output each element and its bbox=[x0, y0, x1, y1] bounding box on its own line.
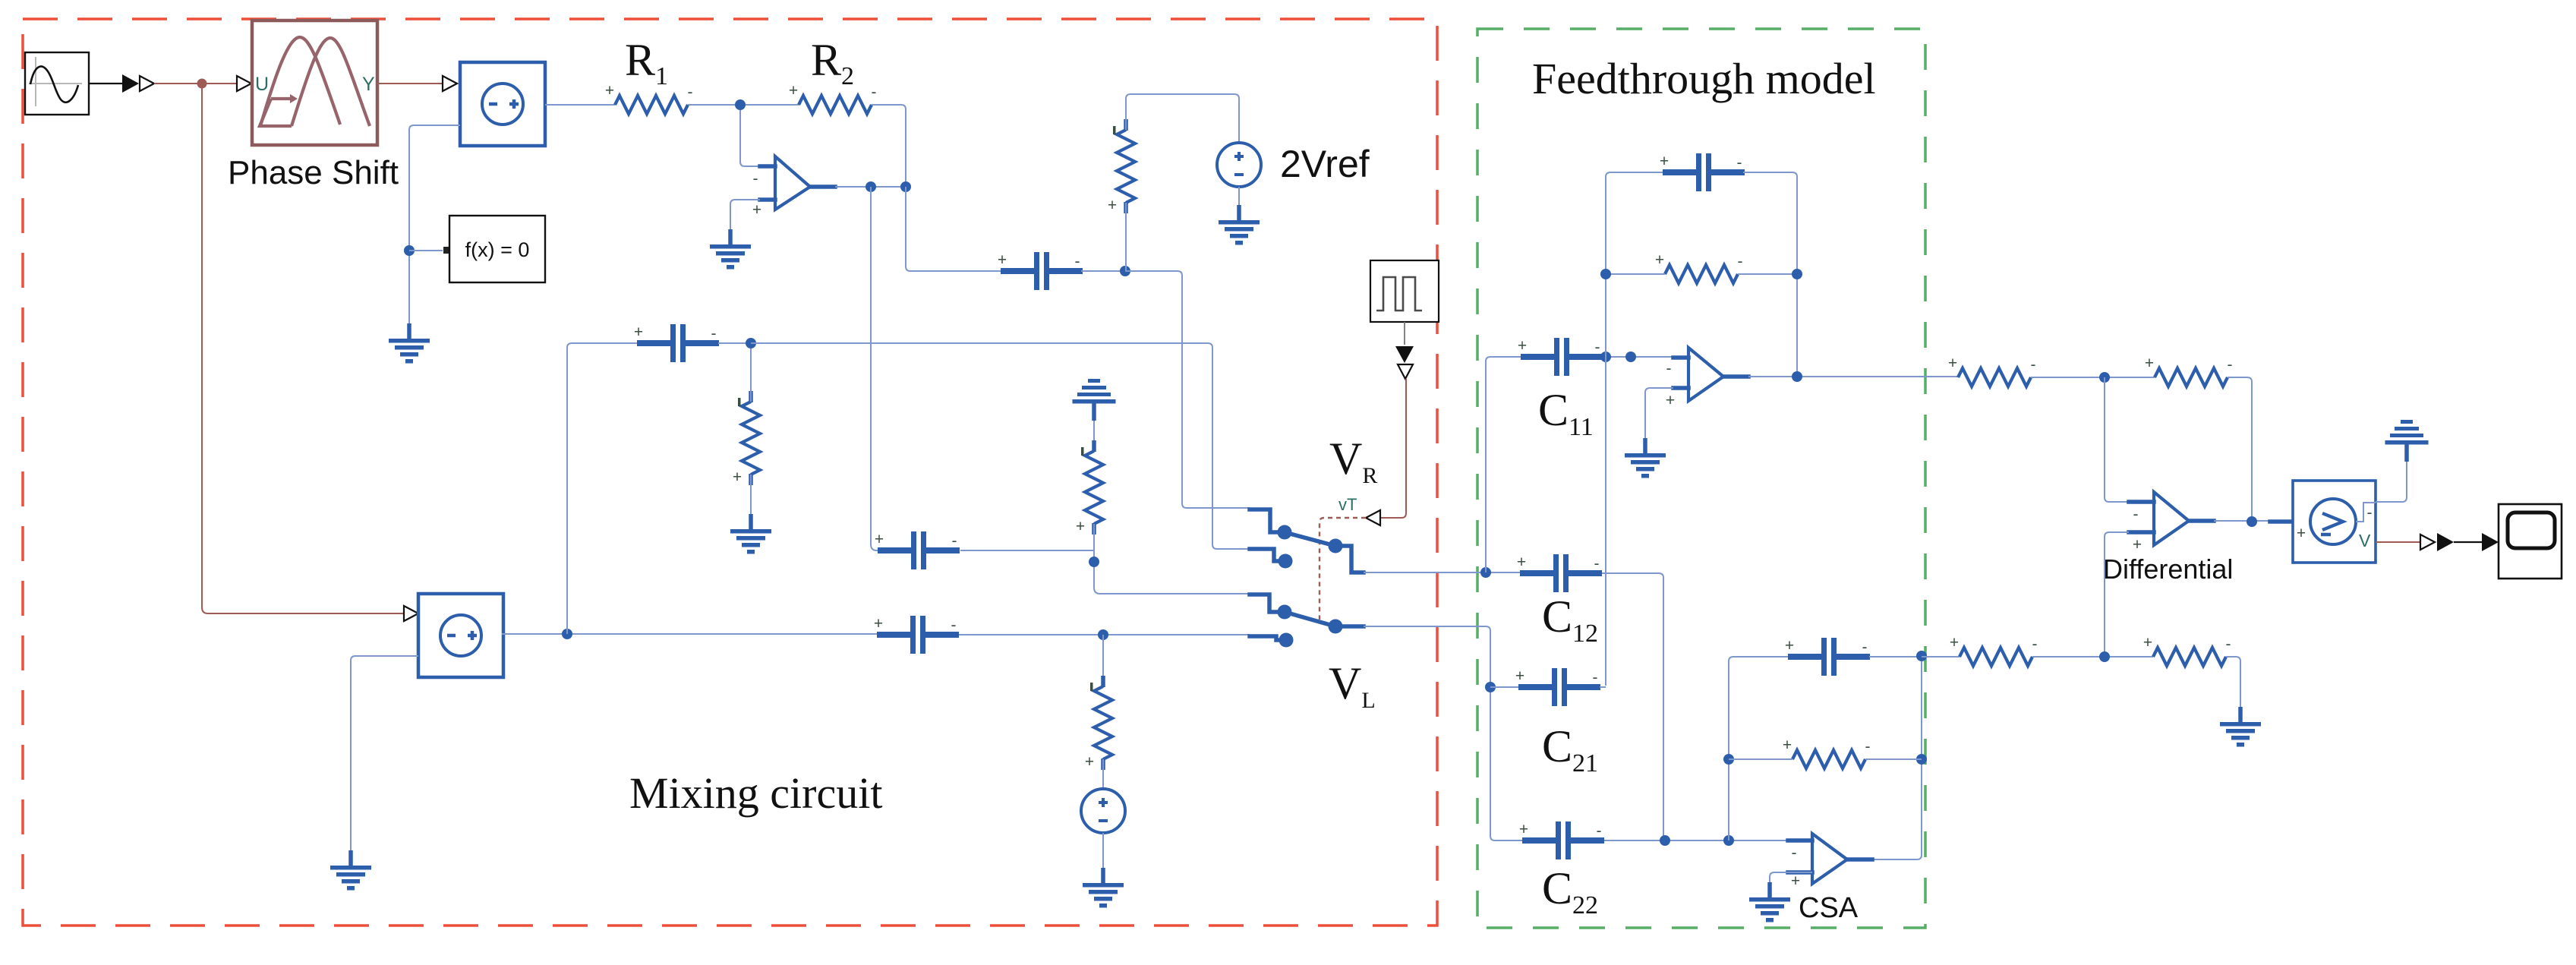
arrow filled scope input bbox=[2482, 533, 2499, 551]
svg-text:-: - bbox=[2133, 506, 2139, 523]
wire C12 right drop to C22 row bbox=[1602, 573, 1668, 840]
resistor vertical mid bbox=[1076, 440, 1103, 535]
svg-text:-: - bbox=[1792, 844, 1797, 862]
wire cap to node357 bbox=[1081, 270, 1125, 272]
sine wave source block bbox=[25, 52, 89, 115]
node G1 output bbox=[1792, 371, 1802, 382]
op-amp G1 bbox=[1666, 348, 1748, 409]
arrow filled down bbox=[1395, 346, 1414, 363]
wire brown pulse control bbox=[1380, 379, 1406, 518]
wire VL common to C21 bbox=[1364, 626, 1522, 840]
Phase Shift block bbox=[252, 20, 377, 145]
resistor vertical to 2Vref bbox=[1108, 119, 1135, 214]
wire riser C21 to feedback loop bbox=[1606, 172, 1664, 686]
svg-text:+: + bbox=[1666, 392, 1675, 409]
node CSA minus mid bbox=[1723, 754, 1734, 765]
svg-text:f(x) = 0: f(x) = 0 bbox=[465, 238, 530, 261]
svg-text:-: - bbox=[753, 170, 758, 188]
arrow filled bbox=[122, 74, 139, 93]
capacitor C11 bbox=[1518, 337, 1603, 376]
wire lower chain to ground bbox=[2226, 657, 2240, 707]
wire 2Vref to ground bbox=[1238, 187, 1240, 205]
ground 2Vref bbox=[1219, 205, 1260, 245]
wire diff plus riser bbox=[2105, 532, 2129, 657]
node output A bbox=[865, 181, 876, 192]
wire riser to cap row452 bbox=[567, 343, 638, 634]
capacitor C22 bbox=[1519, 821, 1604, 859]
wire C22 row to CSA bbox=[1604, 840, 1788, 841]
wire G1 output chain bbox=[1748, 376, 1958, 377]
arrow open down bbox=[1398, 364, 1413, 379]
wire inverted ground stem bbox=[1093, 421, 1095, 451]
wire resistor stems row452 bbox=[750, 348, 752, 514]
wire node down to op-amp minus bbox=[740, 110, 760, 166]
node C22 row B bbox=[1723, 835, 1734, 846]
svg-text:Differential: Differential bbox=[2103, 553, 2233, 585]
capacitor mixing A row725 bbox=[875, 531, 960, 569]
wire node452 to VR switch contact2 bbox=[751, 343, 1250, 549]
resistor R2 bbox=[789, 82, 877, 114]
svg-text:+: + bbox=[1791, 872, 1800, 890]
arrow open port bbox=[140, 76, 154, 91]
node C11 out B bbox=[1625, 352, 1636, 362]
wire cap452 to node bbox=[718, 342, 751, 344]
wire resistor top to 2Vref bbox=[1126, 94, 1239, 143]
op-amp U1 bbox=[752, 156, 835, 219]
resistor lower to ground bbox=[2143, 634, 2231, 666]
svg-text:CSA: CSA bbox=[1799, 892, 1859, 924]
wire sine output bbox=[89, 83, 122, 84]
node capA junction bbox=[1089, 557, 1099, 567]
svg-text:+: + bbox=[2297, 525, 2306, 542]
node C22 row A bbox=[1660, 835, 1670, 846]
ground op-amp U1 bbox=[710, 229, 751, 270]
wire node down to resistor bbox=[1102, 635, 1104, 686]
pulse generator block bbox=[1370, 260, 1439, 322]
node R1-R2 bbox=[735, 99, 746, 110]
node diff plus input bbox=[2099, 651, 2110, 662]
resistor chain1 bbox=[1948, 355, 2036, 386]
wire node to C21 bbox=[1490, 686, 1519, 688]
node G1 out row bbox=[1792, 269, 1802, 279]
wire brown to Phase Shift bbox=[154, 83, 238, 84]
svg-text:-: - bbox=[2367, 504, 2373, 522]
wire G1 plus to ground bbox=[1645, 388, 1673, 438]
wire resistor bottom stem bbox=[1125, 203, 1127, 271]
svg-text:Y: Y bbox=[362, 74, 375, 95]
svg-text:Feedthrough model: Feedthrough model bbox=[1532, 54, 1876, 103]
wire lower chain mid bbox=[2032, 656, 2153, 658]
arrow open source2 input bbox=[404, 606, 418, 621]
node C11 out A bbox=[1600, 352, 1611, 362]
capacitor G1 feedback bbox=[1660, 153, 1745, 191]
node diff output bbox=[2247, 516, 2257, 527]
solver f(x)=0 block bbox=[443, 216, 545, 282]
svg-text:Mixing circuit: Mixing circuit bbox=[629, 768, 882, 818]
wire R2 feedback down bbox=[872, 105, 906, 187]
capacitor C21 bbox=[1515, 667, 1600, 706]
wire pulse output bbox=[1404, 322, 1405, 345]
arrow filled sensor out bbox=[2437, 533, 2454, 551]
wire C11 to op-amp G1 bbox=[1603, 356, 1673, 358]
wire long drop from output to mixing cap A bbox=[871, 187, 878, 550]
svg-text:2Vref: 2Vref bbox=[1280, 143, 1370, 185]
wire op-amp U1 output bbox=[835, 186, 906, 188]
resistor CSA feedback bbox=[1783, 736, 1871, 768]
wire brown sensor output bbox=[2376, 541, 2420, 543]
node row452 bbox=[746, 338, 756, 348]
wire source to ground bbox=[1102, 833, 1104, 868]
wire resistor to source circle bbox=[1102, 759, 1104, 789]
ground source1 bbox=[389, 323, 430, 364]
node source1 ref bbox=[404, 245, 415, 256]
wire op-amp plus to ground bbox=[730, 200, 760, 229]
wire CSA loop left vertical bbox=[1729, 657, 1789, 840]
capacitor CSA feedback bbox=[1785, 637, 1870, 676]
op-amp Differential bbox=[2129, 492, 2214, 553]
capacitor mixing B row836 bbox=[874, 615, 959, 654]
resistor chain lower1 bbox=[1950, 634, 2038, 666]
ground CSA bbox=[1749, 882, 1790, 922]
wire CSA out chain lower bbox=[1922, 656, 1960, 658]
wire node357 to VR switch contact1 bbox=[1125, 271, 1250, 508]
node G1 minus row bbox=[1600, 269, 1611, 279]
capacitor row452 bbox=[634, 323, 719, 362]
wire branch up to C11 bbox=[1486, 357, 1521, 572]
svg-text:vT: vT bbox=[1338, 495, 1357, 514]
node brown junction bbox=[197, 79, 207, 89]
inverted ground sensor bbox=[2385, 420, 2429, 462]
resistor R1 bbox=[605, 82, 693, 114]
node C21 branch bbox=[1485, 682, 1496, 692]
voltage source 2Vref bbox=[1217, 143, 1261, 187]
wire sensor minus to inverted ground bbox=[2376, 462, 2407, 502]
svg-text:U: U bbox=[255, 74, 269, 95]
node diff minus input bbox=[2099, 372, 2110, 383]
wire brown Phase Shift output bbox=[377, 83, 442, 84]
wire G1 feedback res leads bbox=[1606, 273, 1797, 275]
resistor diff feedback bbox=[2145, 355, 2233, 386]
inverted ground above resistor bbox=[1073, 379, 1116, 421]
wire brown down-left column to source 2 bbox=[202, 84, 403, 613]
node source2 output bbox=[562, 629, 572, 639]
wire diff minus drop bbox=[2105, 377, 2129, 502]
wire capB to VL contact2 bbox=[959, 634, 1250, 635]
wire G1 feedback cap right bbox=[1743, 172, 1797, 377]
wire resistor to VL contact1 bbox=[1094, 524, 1250, 594]
wire feedback node down to cap row 357 bbox=[906, 187, 1002, 271]
switch VR bbox=[1250, 509, 1364, 572]
wire CSA cap to out rail bbox=[1869, 657, 1922, 859]
ground G1 bbox=[1625, 438, 1666, 478]
wire CSA plus to ground bbox=[1770, 872, 1812, 882]
wire C21 right to riser bbox=[1600, 686, 1606, 688]
capacitor row357 bbox=[998, 251, 1083, 290]
wire R1 to node bbox=[688, 104, 735, 106]
Mixing circuit boundary box bbox=[23, 19, 1437, 926]
wire black to scope bbox=[2454, 541, 2482, 543]
node row357 bbox=[1120, 266, 1130, 276]
voltage sensor block bbox=[2270, 481, 2376, 563]
ground bottom source bbox=[1083, 868, 1124, 908]
wire source2 output row bbox=[502, 633, 878, 635]
resistor vertical bottom bbox=[1085, 676, 1112, 771]
Feedthrough model boundary box bbox=[1477, 29, 1925, 928]
switch VL bbox=[1250, 594, 1364, 648]
ground source2 bbox=[330, 850, 371, 891]
wire CSA res leads bbox=[1729, 758, 1922, 760]
svg-text:+: + bbox=[752, 201, 761, 219]
arrow open phase shift input bbox=[237, 76, 251, 91]
arrow open sensor out bbox=[2420, 535, 2435, 550]
wire source1 ref to ground bbox=[409, 125, 460, 323]
wire diff feedback to output bbox=[2228, 377, 2252, 522]
resistor G1 feedback bbox=[1655, 251, 1743, 283]
ground row452 bbox=[730, 514, 771, 554]
arrow open source1 input bbox=[443, 76, 457, 91]
controlled voltage source 2 bbox=[418, 594, 503, 677]
node CSA out top bbox=[1916, 651, 1927, 661]
arrow open left vT bbox=[1366, 510, 1380, 525]
wire VR common to C12 bbox=[1364, 572, 1520, 573]
node output B bbox=[900, 181, 911, 192]
voltage source bottom bbox=[1081, 789, 1125, 833]
wire brown dashed switch control bbox=[1320, 518, 1366, 620]
svg-text:+: + bbox=[2133, 536, 2142, 553]
svg-text:V: V bbox=[2359, 531, 2371, 550]
node capB junction bbox=[1098, 629, 1108, 640]
svg-text:-: - bbox=[1666, 360, 1672, 377]
node CSA out mid bbox=[1916, 754, 1927, 765]
wire diff output to sensor bbox=[2214, 520, 2293, 522]
op-amp CSA bbox=[1788, 834, 1872, 890]
scope block bbox=[2499, 504, 2562, 579]
node C11 branch bbox=[1480, 567, 1491, 578]
wire node to R2 bbox=[746, 104, 799, 106]
controlled voltage source 1 bbox=[460, 62, 545, 146]
capacitor C12 bbox=[1517, 553, 1602, 592]
wire to solver block bbox=[409, 250, 443, 251]
wire source1 output to R1 bbox=[545, 104, 615, 106]
resistor vertical row452 bbox=[733, 391, 760, 486]
ground lower chain bbox=[2220, 707, 2261, 747]
wire source2 ref to ground bbox=[351, 656, 418, 850]
wire chain to diff node bbox=[2031, 377, 2155, 378]
wire capA to resistor node bbox=[960, 550, 1094, 551]
svg-text:Phase Shift: Phase Shift bbox=[228, 154, 399, 191]
